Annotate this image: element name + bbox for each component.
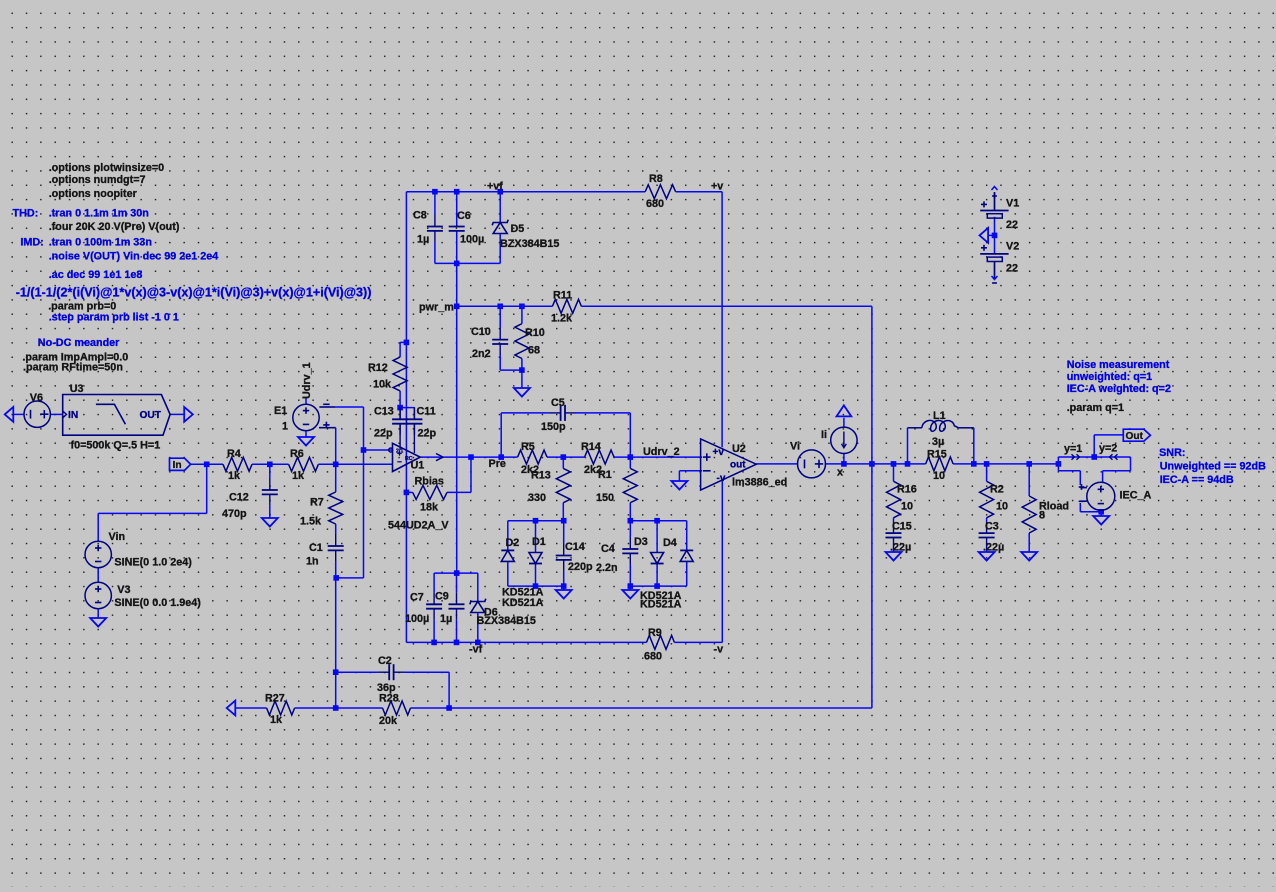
svg-text:C9: C9 xyxy=(435,591,449,603)
svg-text:C13: C13 xyxy=(374,406,394,418)
svg-text:R10: R10 xyxy=(525,327,545,339)
svg-text:10: 10 xyxy=(901,501,913,513)
svg-text:KD521A: KD521A xyxy=(640,599,682,611)
svg-text:470p: 470p xyxy=(222,508,247,520)
svg-text:y=2: y=2 xyxy=(1099,443,1117,455)
svg-text:Unweighted == 92dB: Unweighted == 92dB xyxy=(1160,461,1266,473)
svg-text:1n: 1n xyxy=(306,556,319,568)
svg-text:C6: C6 xyxy=(457,210,471,222)
svg-text:Udrv_2: Udrv_2 xyxy=(643,446,680,458)
svg-text:R27: R27 xyxy=(265,693,285,705)
svg-text:2n2: 2n2 xyxy=(472,348,491,360)
svg-text:22p: 22p xyxy=(374,427,393,439)
svg-text:R14: R14 xyxy=(581,441,601,453)
svg-text:V2: V2 xyxy=(1006,241,1019,253)
svg-text:In: In xyxy=(173,460,182,471)
svg-text:1k: 1k xyxy=(292,470,305,482)
svg-text:22: 22 xyxy=(1006,219,1018,231)
svg-text:D4: D4 xyxy=(663,537,677,549)
svg-text:+v: +v xyxy=(713,447,725,458)
svg-text:10k: 10k xyxy=(373,379,392,391)
svg-text:R8: R8 xyxy=(649,173,663,185)
svg-text:SINE(0 1.0 2e4): SINE(0 1.0 2e4) xyxy=(114,557,192,569)
svg-text:1.5k: 1.5k xyxy=(300,516,322,528)
svg-text:OUT: OUT xyxy=(140,410,162,421)
svg-text:unweighted: q=1: unweighted: q=1 xyxy=(1067,371,1152,383)
svg-text:.param RFtime=50n: .param RFtime=50n xyxy=(23,362,123,374)
svg-text:R15: R15 xyxy=(927,449,947,461)
svg-text:D1: D1 xyxy=(532,536,546,548)
svg-text:150: 150 xyxy=(596,492,614,504)
svg-text:-v: -v xyxy=(717,473,726,484)
svg-text:1: 1 xyxy=(282,421,288,433)
svg-text:x: x xyxy=(837,467,843,479)
svg-text:THD:: THD: xyxy=(13,208,39,220)
svg-text:1µ: 1µ xyxy=(440,613,452,625)
svg-text:U1: U1 xyxy=(411,460,425,472)
svg-text:Vi: Vi xyxy=(790,441,800,453)
svg-text:22: 22 xyxy=(1006,263,1018,275)
svg-text:-v: -v xyxy=(714,644,724,656)
svg-text:V1: V1 xyxy=(1006,197,1019,209)
svg-text:-vf: -vf xyxy=(469,643,483,655)
svg-text:SNR:: SNR: xyxy=(1159,447,1185,459)
svg-text:y=1: y=1 xyxy=(1064,443,1082,455)
svg-text:Out: Out xyxy=(1126,431,1144,442)
svg-text:U3: U3 xyxy=(70,383,84,395)
svg-text:lm3886_ed: lm3886_ed xyxy=(732,477,787,489)
svg-text:1µ: 1µ xyxy=(417,234,429,246)
svg-text:R11: R11 xyxy=(553,290,572,302)
svg-text:C10: C10 xyxy=(471,326,491,338)
svg-text:.tran 0 100m 1m 33n: .tran 0 100m 1m 33n xyxy=(49,237,152,249)
svg-text:-1/(1-1/(2*(i(Vi)@1*v(x)@3-v(x: -1/(1-1/(2*(i(Vi)@1*v(x)@3-v(x)@1*i(Vi)@… xyxy=(16,285,372,299)
svg-text:D2: D2 xyxy=(506,537,520,549)
svg-text:C3: C3 xyxy=(985,521,999,533)
svg-text:V3: V3 xyxy=(117,584,130,596)
svg-text:.ac dec 99 1e1 1e8: .ac dec 99 1e1 1e8 xyxy=(49,269,143,281)
svg-text:C5: C5 xyxy=(551,397,565,409)
svg-text:100µ: 100µ xyxy=(405,613,429,625)
svg-text:2.2n: 2.2n xyxy=(596,562,618,574)
svg-text:Udrv_1: Udrv_1 xyxy=(301,362,313,399)
svg-text:C2: C2 xyxy=(378,655,392,667)
svg-text:C15: C15 xyxy=(892,521,912,533)
svg-text:C14: C14 xyxy=(565,541,585,553)
svg-text:680: 680 xyxy=(644,651,662,663)
svg-text:Ii: Ii xyxy=(821,429,827,441)
svg-text:.param q=1: .param q=1 xyxy=(1067,402,1124,414)
svg-text:.step param prb list -1 0 1: .step param prb list -1 0 1 xyxy=(49,312,179,324)
svg-text:.22µ: .22µ xyxy=(983,542,1004,554)
svg-text:R1: R1 xyxy=(598,469,612,481)
svg-text:C4: C4 xyxy=(601,543,615,555)
svg-text:330: 330 xyxy=(528,492,546,504)
svg-text:IEC-A == 94dB: IEC-A == 94dB xyxy=(1160,474,1234,486)
svg-text:R7: R7 xyxy=(310,497,324,509)
svg-text:.noise V(OUT) Vin dec 99 2e1 2: .noise V(OUT) Vin dec 99 2e1 2e4 xyxy=(49,250,219,262)
svg-text:f0=500k Q=.5 H=1: f0=500k Q=.5 H=1 xyxy=(71,440,161,452)
svg-text:18k: 18k xyxy=(420,502,439,514)
svg-text:C8: C8 xyxy=(413,210,427,222)
svg-text:R4: R4 xyxy=(227,448,241,460)
svg-text:D3: D3 xyxy=(634,536,648,548)
svg-text:IN: IN xyxy=(68,410,78,421)
svg-text:220p: 220p xyxy=(568,561,593,573)
svg-text:pwr_m: pwr_m xyxy=(419,301,454,313)
svg-text:680: 680 xyxy=(646,198,664,210)
svg-text:R13: R13 xyxy=(531,470,551,482)
svg-text:Pre: Pre xyxy=(489,458,506,470)
svg-text:E1: E1 xyxy=(274,405,287,417)
svg-text:.options numdgt=7: .options numdgt=7 xyxy=(49,174,146,186)
svg-text:IEC-A weighted: q=2: IEC-A weighted: q=2 xyxy=(1067,383,1171,395)
svg-text:10: 10 xyxy=(996,501,1008,513)
svg-text:1.2k: 1.2k xyxy=(551,313,573,325)
svg-text:10: 10 xyxy=(933,470,945,482)
svg-text:R9: R9 xyxy=(648,627,662,639)
svg-text:+vf: +vf xyxy=(487,181,503,193)
svg-text:C1: C1 xyxy=(309,542,323,554)
svg-text:U2: U2 xyxy=(732,443,746,455)
svg-text:68: 68 xyxy=(528,345,540,357)
svg-text:Vin: Vin xyxy=(109,531,126,543)
svg-text:R6: R6 xyxy=(290,448,304,460)
svg-text:R5: R5 xyxy=(521,441,535,453)
svg-text:No-DC meander: No-DC meander xyxy=(38,337,120,349)
svg-text:1k: 1k xyxy=(228,470,241,482)
svg-text:8: 8 xyxy=(1039,510,1045,522)
svg-text:BZX384B15: BZX384B15 xyxy=(477,615,536,627)
svg-text:.four 20K 20 V(Pre) V(out): .four 20K 20 V(Pre) V(out) xyxy=(49,221,180,233)
svg-text:SINE(0 0.0 1.9e4): SINE(0 0.0 1.9e4) xyxy=(114,597,201,609)
svg-text:22p: 22p xyxy=(418,427,437,439)
svg-text:R16: R16 xyxy=(897,484,917,496)
svg-text:C11: C11 xyxy=(417,406,436,418)
svg-text:.options plotwinsize=0: .options plotwinsize=0 xyxy=(49,162,164,174)
svg-text:.tran 0 1.1m 1m 30n: .tran 0 1.1m 1m 30n xyxy=(49,208,149,220)
svg-text:3µ: 3µ xyxy=(932,436,944,448)
svg-text:V6: V6 xyxy=(30,392,43,404)
svg-text:Noise measurement: Noise measurement xyxy=(1067,359,1170,371)
svg-text:L1: L1 xyxy=(933,410,946,422)
svg-text:C12: C12 xyxy=(229,492,249,504)
svg-text:1k: 1k xyxy=(270,714,283,726)
svg-text:out: out xyxy=(730,459,746,470)
svg-text:R28: R28 xyxy=(379,693,399,705)
svg-text:C7: C7 xyxy=(410,592,424,604)
svg-text:BZX384B15: BZX384B15 xyxy=(500,238,559,250)
svg-text:20k: 20k xyxy=(379,715,398,727)
svg-text:150p: 150p xyxy=(541,421,566,433)
svg-text:KD521A: KD521A xyxy=(502,597,544,609)
svg-text:544UD2A_V: 544UD2A_V xyxy=(388,520,449,532)
svg-text:IEC_A: IEC_A xyxy=(1120,489,1152,501)
svg-text:100µ: 100µ xyxy=(460,234,484,246)
svg-text:D5: D5 xyxy=(511,223,525,235)
svg-text:.22µ: .22µ xyxy=(890,542,911,554)
svg-text:R2: R2 xyxy=(990,484,1004,496)
svg-text:R12: R12 xyxy=(368,362,388,374)
svg-text:Rbias: Rbias xyxy=(415,475,444,487)
svg-text:+v: +v xyxy=(711,181,723,193)
svg-text:IMD:: IMD: xyxy=(20,237,43,249)
svg-text:.options noopiter: .options noopiter xyxy=(49,188,138,200)
